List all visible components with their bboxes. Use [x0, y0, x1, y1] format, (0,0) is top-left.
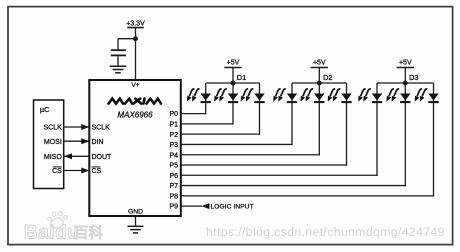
svg-text:DOUT: DOUT — [92, 154, 113, 161]
wire anode rail D2 — [292, 82, 347, 84]
svg-text:P1: P1 — [169, 121, 178, 128]
watermark baidu baike — [24, 212, 103, 244]
LED D3.1 — [358, 83, 382, 102]
wire anode rail D1 — [206, 82, 260, 84]
wire GND — [135, 216, 137, 226]
LED D2.1 — [273, 83, 297, 102]
LED D1.1 — [187, 83, 211, 102]
svg-text:MAX6966: MAX6966 — [117, 110, 153, 119]
node D3 junction — [403, 81, 408, 86]
svg-text:CS: CS — [92, 168, 102, 175]
ground (IC) — [128, 225, 144, 227]
wire +3.3V to V+ — [135, 28, 137, 80]
ground (capacitor) — [110, 65, 127, 67]
svg-text:D2: D2 — [323, 73, 332, 82]
svg-text:CS: CS — [52, 168, 62, 175]
svg-text:P5: P5 — [169, 163, 178, 170]
wire DOUT — [64, 155, 90, 157]
wire P1 to LED — [181, 123, 234, 125]
svg-text:百科: 百科 — [74, 225, 103, 242]
wire CS — [64, 170, 90, 172]
svg-text:MOSI: MOSI — [44, 139, 62, 146]
svg-text:D1: D1 — [237, 73, 246, 82]
wire P7 to LED — [181, 185, 406, 187]
svg-text:DIN: DIN — [92, 139, 104, 146]
wire DIN — [64, 140, 90, 142]
svg-text:LOGIC INPUT: LOGIC INPUT — [211, 204, 254, 211]
svg-text:D3: D3 — [409, 73, 418, 82]
microcontroller U2 — [34, 100, 64, 189]
wire anode rail D3 — [377, 82, 434, 84]
LED D2.3 — [328, 83, 352, 102]
LED D3.2 — [387, 83, 411, 102]
node D1 junction — [231, 81, 236, 86]
svg-text:+3.3V: +3.3V — [126, 20, 145, 27]
svg-text:+5V: +5V — [227, 60, 240, 67]
wire P3 to LED — [181, 143, 293, 145]
svg-text:P4: P4 — [169, 152, 178, 159]
node D2 junction — [317, 81, 322, 86]
LED D3.3 — [415, 83, 439, 102]
wire P9 LOGIC INPUT — [181, 205, 202, 207]
wire to bypass capacitor — [118, 38, 136, 40]
wire P4 to LED — [181, 154, 320, 156]
svg-text:P6: P6 — [169, 173, 178, 180]
LED D2.2 — [301, 83, 325, 102]
wire P5 to LED — [181, 164, 347, 166]
MAXIM logo — [109, 99, 124, 104]
svg-text:P7: P7 — [169, 183, 178, 190]
svg-text:P8: P8 — [169, 193, 178, 200]
svg-text:P3: P3 — [169, 142, 178, 149]
svg-text:SCLK: SCLK — [44, 125, 63, 132]
wire P6 to LED — [181, 174, 378, 176]
svg-text:µC: µC — [40, 105, 50, 114]
svg-text:P0: P0 — [169, 111, 178, 118]
svg-text:P2: P2 — [169, 132, 178, 139]
svg-text:https://blog.csdn.net/chunmdqm: https://blog.csdn.net/chunmdqmg/424749 — [206, 225, 445, 239]
LED D1.3 — [241, 83, 265, 102]
svg-text:MISO: MISO — [44, 154, 62, 161]
svg-text:SCLK: SCLK — [92, 125, 111, 132]
IC U1 MAX6966 — [89, 80, 181, 216]
svg-text:+5V: +5V — [399, 60, 412, 67]
svg-text:P9: P9 — [169, 204, 178, 211]
node V+ junction — [133, 36, 138, 41]
svg-text:GND: GND — [128, 209, 143, 216]
wire SCLK — [64, 126, 90, 128]
wire P2 to LED — [181, 133, 260, 135]
wire P8 to LED — [181, 195, 434, 197]
svg-text:V+: V+ — [131, 82, 139, 89]
wire P0 to LED — [181, 113, 207, 115]
svg-text:+5V: +5V — [313, 60, 326, 67]
LED D1.2 — [214, 83, 238, 102]
capacitor C1 — [111, 49, 126, 51]
